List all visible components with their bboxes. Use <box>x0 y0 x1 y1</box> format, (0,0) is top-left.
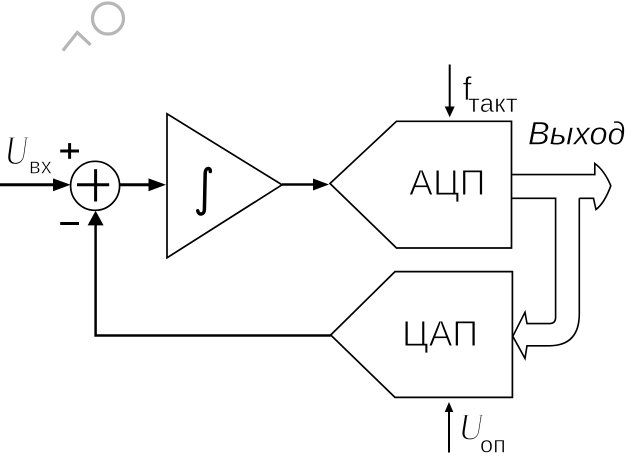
svg-text:АЦП: АЦП <box>409 162 486 203</box>
svg-text:U: U <box>5 128 31 173</box>
svg-text:такт: такт <box>468 88 518 118</box>
svg-text:оп: оп <box>480 432 506 456</box>
svg-text:Выход: Выход <box>528 116 626 152</box>
svg-text:ЦАП: ЦАП <box>402 313 478 354</box>
svg-text:вх: вх <box>29 154 52 179</box>
